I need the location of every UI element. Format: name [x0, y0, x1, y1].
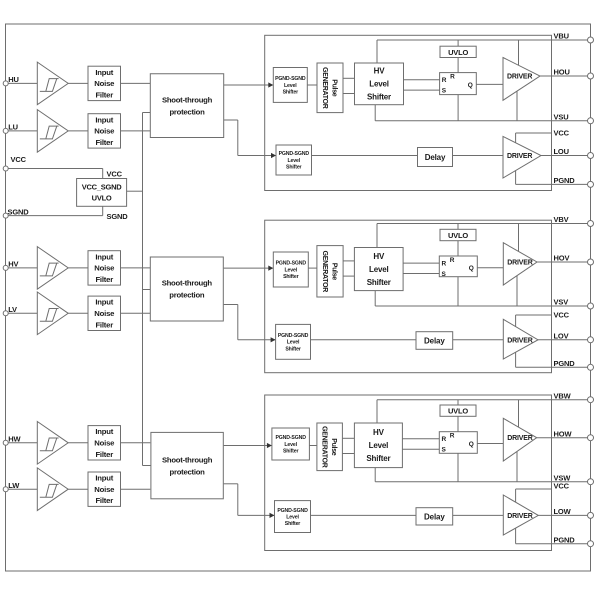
svg-text:LV: LV — [8, 305, 17, 314]
wire UVLO W to latch reset — [457, 416, 459, 431]
shoot-through protection block W — [151, 432, 223, 498]
wire buffer HU to noise filter — [68, 82, 88, 84]
wire HV level shifter U to latch S — [404, 89, 440, 91]
node arrow into level shifter W low — [270, 513, 275, 518]
svg-text:Shifter: Shifter — [367, 278, 391, 287]
wire LV to input buffer — [8, 312, 37, 314]
wire UVLO output to fault bus — [127, 190, 143, 192]
shoot-through protection block U — [150, 74, 223, 138]
svg-text:VBV: VBV — [554, 215, 569, 224]
wire fault bus into shoot-through protection V — [143, 289, 151, 291]
svg-text:HOV: HOV — [554, 254, 570, 263]
pin LU — [3, 128, 8, 133]
wire noise filter HU to shoot-through protection — [121, 82, 151, 84]
svg-text:Noise: Noise — [94, 79, 115, 88]
HV level shifter V — [354, 248, 403, 291]
svg-text:DRIVER: DRIVER — [507, 337, 532, 344]
wire pulse generator W to HV level shifter (set) — [342, 437, 354, 439]
svg-text:LOV: LOV — [554, 331, 569, 340]
wire low-side driver U to PGND — [515, 171, 517, 185]
svg-text:Input: Input — [95, 298, 113, 307]
PGND-SGND level shifter U high — [273, 68, 307, 103]
wire buffer HW to noise filter — [68, 442, 88, 444]
wire buffer HV to noise filter — [68, 267, 88, 269]
svg-text:GENERATOR: GENERATOR — [320, 426, 327, 468]
svg-text:Level: Level — [284, 442, 297, 448]
input noise filter HV — [88, 251, 121, 285]
svg-text:HU: HU — [8, 75, 19, 84]
svg-text:protection: protection — [169, 107, 205, 116]
wire high-side driver W to VS rail — [516, 451, 518, 481]
wire VB rail to high-side driver U — [518, 40, 520, 65]
svg-text:Shifter: Shifter — [285, 521, 301, 527]
wire HV to input buffer — [8, 267, 37, 269]
node arrow into level shifter V low — [271, 337, 276, 342]
svg-text:Delay: Delay — [424, 513, 445, 522]
svg-text:Filter: Filter — [95, 320, 113, 329]
wire latch W to VS rail — [457, 453, 459, 481]
wire VB rail to high-side driver V — [518, 224, 520, 252]
wire VS rail W — [375, 481, 590, 483]
svg-text:Filter: Filter — [95, 450, 113, 459]
wire shoot-through W low-side output — [224, 483, 238, 485]
svg-text:PGND-SGND: PGND-SGND — [276, 261, 307, 267]
svg-text:Filter: Filter — [95, 90, 113, 99]
svg-text:HV: HV — [373, 252, 385, 261]
svg-text:R: R — [450, 433, 455, 440]
wire pulse generator V to HV level shifter (reset) — [343, 275, 354, 277]
channel V block boundary — [265, 220, 552, 373]
wire VB rail to UVLO V — [457, 224, 459, 230]
svg-text:Noise: Noise — [94, 127, 115, 136]
svg-text:Pulse: Pulse — [330, 438, 337, 456]
svg-text:Shifter: Shifter — [283, 89, 299, 95]
wire pulse generator V to HV level shifter (set) — [343, 260, 354, 262]
svg-text:Delay: Delay — [424, 337, 445, 346]
svg-text:VBW: VBW — [554, 391, 572, 400]
svg-text:R: R — [450, 257, 455, 264]
node arrow into level shifter U low — [271, 153, 276, 158]
svg-text:LW: LW — [8, 481, 20, 490]
svg-text:Level: Level — [286, 514, 299, 520]
svg-text:Shifter: Shifter — [286, 164, 302, 170]
svg-text:DRIVER: DRIVER — [507, 260, 532, 267]
wire VCC to low-side driver U — [515, 133, 517, 143]
svg-text:Shoot-through: Shoot-through — [162, 95, 213, 104]
svg-text:Shifter: Shifter — [283, 448, 299, 454]
svg-text:LU: LU — [8, 123, 18, 132]
wire HV level shifter U to latch R — [404, 79, 440, 81]
wire VS rail U — [375, 120, 590, 122]
svg-text:Input: Input — [95, 252, 113, 261]
svg-text:PGND-SGND: PGND-SGND — [275, 76, 306, 82]
svg-text:Level: Level — [369, 441, 388, 450]
PGND-SGND level shifter U low — [276, 145, 312, 175]
wire VB rail to UVLO U — [457, 40, 459, 46]
wire HV level shifter U to VS rail — [374, 105, 376, 121]
wire high-side driver V to VS rail — [516, 276, 518, 306]
wire latch V to VS rail — [457, 277, 459, 306]
wire buffer LW to noise filter — [68, 488, 88, 490]
wire HV level shifter W to VS rail — [374, 468, 376, 482]
pulse generator W — [317, 423, 343, 471]
RS latch V — [439, 256, 477, 277]
svg-text:Level: Level — [369, 265, 388, 274]
wire shoot-through U low-side output — [224, 119, 238, 121]
high-side driver U — [503, 58, 540, 101]
schmitt input buffer HU — [37, 62, 68, 105]
svg-text:SGND: SGND — [8, 207, 30, 216]
input noise filter HW — [88, 426, 121, 460]
wire latch U to VS rail — [457, 95, 459, 121]
svg-text:GENERATOR: GENERATOR — [321, 251, 328, 293]
svg-text:R: R — [442, 436, 447, 443]
wire pulse generator W to HV level shifter (reset) — [342, 453, 354, 455]
svg-text:VCC: VCC — [11, 155, 27, 164]
wire fault bus into shoot-through protection W — [143, 465, 151, 467]
wire noise filter HW to shoot-through protection — [121, 442, 151, 444]
svg-text:PGND-SGND: PGND-SGND — [275, 435, 306, 441]
wire HO output U — [540, 75, 591, 77]
HV level shifter U — [355, 63, 404, 105]
svg-text:Shoot-through: Shoot-through — [162, 455, 213, 464]
wire HV level shifter W to latch S — [402, 448, 439, 450]
wire UVLO U to latch reset — [457, 58, 459, 73]
svg-text:Q: Q — [469, 441, 474, 448]
delay block U — [418, 148, 453, 167]
wire LU to input buffer — [8, 130, 37, 132]
wire HV level shifter V to latch S — [403, 273, 439, 275]
wire HV level shifter U to VB rail — [376, 40, 378, 63]
svg-text:Input: Input — [95, 68, 113, 77]
wire SGND to VCC_SGND UVLO — [8, 215, 103, 217]
wire HV level shifter V to VS rail — [374, 291, 376, 306]
svg-text:Noise: Noise — [94, 485, 115, 494]
svg-text:Noise: Noise — [94, 264, 115, 273]
svg-text:Input: Input — [95, 115, 113, 124]
wire fault bus into shoot-through protection U — [143, 112, 151, 114]
PGND-SGND level shifter V high — [273, 252, 308, 287]
pin HW — [3, 440, 8, 445]
pin SGND — [3, 213, 8, 218]
svg-text:R: R — [442, 77, 447, 84]
svg-text:Level: Level — [284, 83, 297, 89]
pulse generator U — [317, 63, 343, 113]
wire low-side driver W to PGND — [515, 528, 517, 544]
svg-text:VSV: VSV — [554, 298, 569, 307]
svg-text:VCC: VCC — [107, 170, 123, 179]
svg-text:S: S — [442, 447, 447, 454]
wire noise filter LU to shoot-through protection — [121, 130, 151, 132]
wire HV level shifter W to latch R — [402, 438, 439, 440]
UVLO block V — [440, 229, 476, 240]
HV level shifter W — [354, 423, 402, 468]
PGND-SGND level shifter W low — [275, 501, 311, 533]
svg-text:GENERATOR: GENERATOR — [321, 67, 328, 109]
pin VCC — [3, 166, 8, 171]
delay block W — [416, 508, 453, 525]
svg-text:Pulse: Pulse — [330, 263, 337, 281]
wire HW to input buffer — [8, 442, 37, 444]
input noise filter LV — [88, 296, 121, 330]
RS latch U — [440, 73, 477, 95]
shoot-through protection block V — [150, 257, 223, 321]
pin LV — [3, 311, 8, 316]
svg-text:Shifter: Shifter — [367, 93, 391, 102]
wire delay U to low-side driver — [453, 155, 504, 157]
schmitt input buffer HW — [37, 422, 68, 465]
wire LO output W — [538, 514, 590, 516]
wire LW to input buffer — [8, 488, 37, 490]
svg-text:Delay: Delay — [425, 153, 446, 162]
svg-text:VSU: VSU — [554, 112, 569, 121]
svg-text:PGND-SGND: PGND-SGND — [279, 151, 310, 157]
wire VB rail to UVLO W — [457, 400, 459, 405]
svg-text:PGND: PGND — [554, 535, 576, 544]
svg-text:UVLO: UVLO — [448, 407, 468, 416]
PGND-SGND level shifter W high — [272, 428, 310, 460]
wire delay W to low-side driver — [453, 514, 504, 516]
svg-text:Shifter: Shifter — [366, 454, 390, 463]
svg-text:Filter: Filter — [95, 275, 113, 284]
low-side driver W — [503, 495, 538, 535]
svg-text:Level: Level — [287, 340, 300, 346]
schmitt input buffer LV — [37, 292, 68, 335]
wire LO output V — [538, 339, 591, 341]
wire PGND rail V — [516, 366, 591, 368]
schmitt input buffer HV — [37, 247, 68, 290]
svg-text:LOW: LOW — [554, 507, 572, 516]
wire latch W Q to high-side driver — [477, 443, 503, 445]
node arrow into level shifter V high — [268, 266, 273, 271]
node arrow into level shifter U high — [268, 82, 273, 87]
wire UVLO fault bus — [142, 113, 144, 466]
svg-text:SGND: SGND — [107, 212, 129, 221]
channel U block boundary — [265, 35, 552, 190]
svg-text:PGND-SGND: PGND-SGND — [278, 333, 309, 339]
wire buffer LV to noise filter — [68, 312, 88, 314]
schmitt input buffer LU — [37, 110, 68, 153]
PGND-SGND level shifter V low — [276, 324, 311, 359]
svg-text:DRIVER: DRIVER — [507, 513, 532, 520]
wire noise filter LV to shoot-through protection — [121, 312, 151, 314]
wire VCC to VCC_SGND UVLO — [8, 168, 103, 170]
delay block V — [416, 332, 453, 350]
wire level shifter W to pulse generator — [309, 445, 317, 447]
svg-text:Filter: Filter — [95, 496, 113, 505]
svg-text:HV: HV — [373, 428, 385, 437]
svg-text:PGND-SGND: PGND-SGND — [277, 508, 308, 514]
wire VB rail to high-side driver W — [518, 400, 520, 427]
svg-text:Shifter: Shifter — [283, 274, 299, 280]
pin HU — [3, 81, 8, 86]
input noise filter HU — [88, 66, 121, 100]
svg-text:HV: HV — [8, 260, 18, 269]
wire delay V to low-side driver — [453, 339, 504, 341]
wire HO output V — [537, 261, 591, 263]
wire VB rail U — [377, 39, 591, 41]
wire level shifter V to delay — [311, 339, 417, 341]
svg-text:Input: Input — [95, 474, 113, 483]
svg-text:Q: Q — [469, 265, 474, 272]
wire pulse generator U to HV level shifter (reset) — [343, 93, 355, 95]
wire buffer LU to noise filter — [68, 130, 88, 132]
svg-text:LOU: LOU — [554, 147, 569, 156]
wire VCC to low-side driver W — [515, 489, 517, 502]
input noise filter LU — [88, 114, 121, 148]
wire level shifter U to delay — [312, 155, 418, 157]
svg-text:Shoot-through: Shoot-through — [162, 279, 213, 288]
wire shoot-through V high-side output — [224, 267, 273, 269]
svg-text:VCC: VCC — [554, 129, 570, 138]
wire LO output U — [541, 155, 591, 157]
svg-text:Level: Level — [369, 80, 388, 89]
wire PGND rail U — [516, 183, 591, 185]
UVLO block W — [440, 405, 476, 416]
svg-text:UVLO: UVLO — [92, 194, 112, 203]
wire shoot-through W high-side output — [224, 445, 272, 447]
svg-text:DRIVER: DRIVER — [507, 74, 532, 81]
svg-text:VBU: VBU — [554, 32, 569, 41]
schmitt input buffer LW — [37, 468, 68, 511]
svg-text:VCC: VCC — [554, 482, 570, 491]
wire VB rail V — [377, 223, 591, 225]
wire high-side driver U to VS rail — [516, 91, 518, 121]
svg-text:Q: Q — [468, 82, 473, 89]
svg-text:PGND: PGND — [554, 359, 576, 368]
svg-text:HOU: HOU — [554, 68, 570, 77]
input noise filter LW — [88, 472, 121, 506]
svg-text:HOW: HOW — [554, 429, 573, 438]
svg-text:Noise: Noise — [94, 439, 115, 448]
high-side driver W — [503, 418, 536, 461]
wire HO output W — [537, 437, 591, 439]
wire noise filter LW to shoot-through protection — [121, 488, 151, 490]
svg-text:UVLO: UVLO — [448, 48, 468, 57]
node arrow into level shifter W high — [267, 443, 272, 448]
svg-text:HV: HV — [374, 67, 386, 76]
wire shoot-through V low-side output — [224, 304, 238, 306]
wire VCC to low-side driver V — [515, 315, 517, 327]
svg-text:R: R — [450, 73, 455, 80]
wire shoot-through U high-side output — [224, 84, 273, 86]
wire HV level shifter V to VB rail — [376, 224, 378, 248]
wire VS rail V — [375, 305, 590, 307]
svg-text:Level: Level — [287, 158, 300, 164]
wire level shifter U to pulse generator — [307, 84, 317, 86]
wire UVLO V to latch reset — [457, 241, 459, 256]
svg-text:protection: protection — [170, 467, 206, 476]
wire HV level shifter W to VB rail — [376, 400, 378, 423]
wire level shifter W to delay — [311, 514, 417, 516]
wire level shifter V to pulse generator — [308, 267, 317, 269]
wire VB rail W — [377, 399, 591, 401]
svg-text:Level: Level — [285, 267, 298, 273]
low-side driver U — [503, 136, 541, 178]
wire latch U Q to high-side driver — [476, 83, 503, 85]
svg-text:VCC: VCC — [554, 311, 570, 320]
VCC_SGND UVLO block — [77, 179, 127, 207]
svg-text:UVLO: UVLO — [448, 231, 468, 240]
svg-text:DRIVER: DRIVER — [507, 435, 532, 442]
svg-text:Pulse: Pulse — [330, 79, 337, 97]
svg-text:Shifter: Shifter — [285, 346, 301, 352]
wire PGND rail W — [516, 543, 591, 545]
wire noise filter HV to shoot-through protection — [121, 267, 151, 269]
pin LW — [3, 487, 8, 492]
wire HV level shifter V to latch R — [403, 262, 439, 264]
svg-text:protection: protection — [169, 291, 205, 300]
wire pulse generator U to HV level shifter (set) — [343, 77, 355, 79]
svg-text:R: R — [442, 261, 447, 268]
UVLO block U — [440, 46, 476, 57]
svg-text:Input: Input — [95, 427, 113, 436]
svg-text:PGND: PGND — [554, 176, 576, 185]
svg-text:Noise: Noise — [94, 309, 115, 318]
RS latch W — [439, 432, 477, 454]
wire low-side driver V to PGND — [515, 352, 517, 367]
svg-text:HW: HW — [8, 435, 21, 444]
svg-text:S: S — [442, 88, 447, 95]
pin HV — [3, 265, 8, 270]
pulse generator V — [317, 246, 343, 297]
svg-text:DRIVER: DRIVER — [507, 153, 532, 160]
wire HU to input buffer — [8, 82, 37, 84]
svg-text:Filter: Filter — [95, 138, 113, 147]
channel W block boundary — [265, 395, 552, 551]
low-side driver V — [503, 319, 538, 359]
wire latch V Q to high-side driver — [477, 267, 503, 269]
high-side driver V — [503, 243, 537, 285]
svg-text:VCC_SGND: VCC_SGND — [82, 183, 123, 192]
